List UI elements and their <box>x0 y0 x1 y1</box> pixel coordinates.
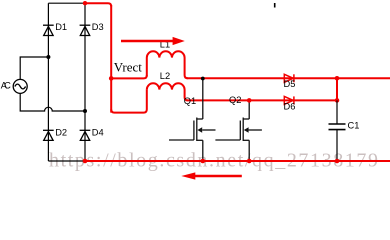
svg-text:AC: AC <box>1 81 11 91</box>
wire bridge branch 2 vertical <box>84 3 86 161</box>
node AC bottom junction <box>83 109 87 113</box>
source AC <box>13 79 27 93</box>
svg-text:D3: D3 <box>92 22 104 32</box>
inductor L1 <box>147 51 188 78</box>
wire U path under Vrect <box>111 90 147 113</box>
capacitor C1 <box>329 100 346 161</box>
current arrow top <box>121 40 174 43</box>
svg-text:D4: D4 <box>92 127 104 137</box>
current arrow bottom <box>195 175 242 178</box>
node Q2 drain <box>247 98 252 103</box>
wire red trunk vertical <box>110 5 112 113</box>
diode D2 <box>43 130 54 140</box>
diode D1 <box>43 25 54 35</box>
node bottom rail left <box>83 159 88 164</box>
wire bridge branch 1 vertical <box>47 3 49 161</box>
wire bottom rail red <box>85 160 390 162</box>
wire AC bottom with hop <box>20 93 85 111</box>
node D5 line / C1 <box>335 76 340 81</box>
node AC top junction <box>46 55 50 59</box>
svg-text:Q2: Q2 <box>229 95 241 105</box>
wire top rail red <box>85 3 111 6</box>
node Q1 drain <box>201 77 205 81</box>
node top rail junction <box>83 1 87 5</box>
node Q1 source on rail <box>201 159 206 164</box>
diode D6 <box>284 96 294 104</box>
diode D5 <box>284 74 294 82</box>
wire Vrect to L1 riser <box>111 75 147 78</box>
wire bottom bridge black <box>48 160 85 162</box>
node Vrect <box>109 76 114 81</box>
transistor Q1 <box>169 79 216 162</box>
inductor L2 <box>147 83 188 100</box>
tick mark top <box>274 3 276 8</box>
svg-text:D1: D1 <box>55 22 67 32</box>
svg-text:D5: D5 <box>284 79 296 89</box>
svg-text:D2: D2 <box>55 127 67 137</box>
svg-text:C1: C1 <box>348 121 360 131</box>
svg-text:D6: D6 <box>284 102 296 112</box>
wire output right vertical red <box>336 78 338 100</box>
svg-text:Vrect: Vrect <box>114 60 142 75</box>
wire L2 to D6 line <box>187 99 338 101</box>
svg-text:Q1: Q1 <box>184 96 196 106</box>
node C1 bottom on rail <box>335 159 340 164</box>
wire AC top <box>20 57 48 79</box>
transistor Q2 <box>215 100 262 161</box>
wire output top line <box>187 77 390 79</box>
svg-text:L2: L2 <box>160 71 170 81</box>
node Q2 source on rail <box>247 159 252 164</box>
diode D4 <box>80 130 91 140</box>
node D6 line / C1 <box>335 98 340 103</box>
wire top rail black <box>48 2 85 4</box>
diode D3 <box>80 25 91 35</box>
